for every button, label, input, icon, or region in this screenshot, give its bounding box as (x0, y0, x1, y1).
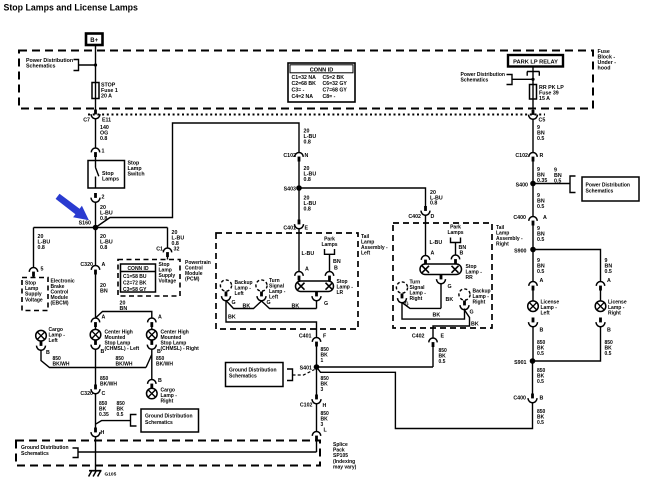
wire C7 to stop lamp switch pin 1 (95, 118, 97, 148)
wire label 850 BK 3 (321, 376, 330, 393)
svg-text:B: B (158, 378, 162, 384)
svg-text:BK: BK (243, 304, 251, 310)
wire S900 to license left (532, 250, 534, 282)
svg-text:Right: Right (496, 242, 509, 248)
svg-text:A: A (305, 267, 309, 273)
connector C320 C (91, 385, 100, 394)
connector C400 A (529, 216, 537, 225)
svg-text:G: G (448, 284, 452, 290)
connector pin H (left) (91, 428, 100, 437)
wire label 20 L-BU 0.8 (EBCM) (38, 234, 51, 251)
svg-text:B: B (540, 396, 544, 402)
svg-text:A: A (102, 315, 106, 321)
wire relay to fuse 39 (532, 72, 534, 85)
lamp CHMSL right E2 (147, 329, 158, 340)
node at relay feed (531, 78, 534, 81)
svg-text:A: A (431, 251, 435, 257)
connector C102 H (312, 395, 321, 404)
svg-text:(EBCM): (EBCM) (51, 301, 69, 307)
svg-text:Left: Left (49, 338, 59, 344)
lamp cargo left E3 (36, 330, 47, 341)
wire label 850 BK 0.5 (S901) (537, 368, 546, 385)
svg-text:C5=2 BK: C5=2 BK (323, 75, 345, 81)
conn id table (288, 63, 355, 102)
svg-text:0.5: 0.5 (439, 359, 446, 365)
connector cargo right pin B (148, 379, 156, 388)
svg-text:E: E (441, 334, 445, 340)
svg-text:Schematics: Schematics (586, 189, 614, 195)
svg-text:A: A (158, 315, 162, 321)
svg-text:BN: BN (100, 288, 108, 294)
wire label 850 BK/WH (down) (100, 376, 117, 387)
CHMSL left label (105, 330, 140, 353)
svg-text:0.5: 0.5 (537, 269, 544, 275)
svg-text:Schematics: Schematics (229, 374, 257, 380)
svg-text:L-BU: L-BU (302, 251, 315, 257)
cargo left label (49, 327, 66, 344)
svg-text:Left: Left (541, 311, 551, 317)
fuse RR PK LP Fuse 39 15A (530, 85, 565, 102)
connector C320 A (91, 266, 99, 275)
wire C102N to S403 (298, 162, 300, 189)
wire stop RR G down (440, 284, 442, 309)
svg-text:C3=58 GY: C3=58 GY (123, 287, 147, 293)
wire label 9 BN 0.5 (license right) (605, 258, 613, 275)
svg-text:may vary): may vary) (333, 464, 357, 470)
connector CHMSL right pin B (147, 340, 156, 349)
svg-text:5: 5 (41, 267, 44, 273)
connector stop lamp RR pin A (421, 255, 429, 264)
wire label 9 BN 0.5 (S400) (537, 193, 545, 210)
wire pin2 to S160 (95, 202, 97, 228)
node at B+ feed (94, 63, 97, 66)
relay output terminal (527, 67, 540, 76)
connector license right pin B (596, 318, 605, 327)
svg-text:A: A (102, 262, 106, 268)
wire H into ground splice box (95, 437, 97, 471)
wire S401 bus to C402E branch (317, 366, 434, 368)
svg-text:G: G (324, 301, 328, 307)
connector EBCM pin 5 (29, 268, 37, 277)
turn signal right label (410, 280, 427, 303)
license right label (608, 300, 627, 317)
stop lamp switch label (128, 161, 145, 178)
svg-text:BN: BN (333, 259, 341, 265)
wire C102H to splice pack (316, 404, 318, 432)
wire label 9 BN 0.5 (license left) (537, 258, 545, 275)
svg-text:LR: LR (337, 290, 344, 296)
svg-text:L-BU: L-BU (430, 240, 443, 246)
svg-text:Schematics: Schematics (461, 78, 489, 84)
connector pin 1 (91, 148, 99, 157)
connector stop lamp LR pin A (295, 271, 303, 280)
tail lamp assembly right dashed box (393, 223, 492, 328)
wire label 20 BN (split) (120, 301, 128, 312)
svg-text:R: R (540, 153, 544, 159)
svg-text:Voltage: Voltage (25, 297, 43, 303)
connector pin 2 (91, 193, 100, 202)
fuse block connector face dotted line (88, 114, 545, 116)
wire label 850 BK/WH (right) (156, 356, 173, 367)
svg-text:0.8: 0.8 (430, 201, 437, 207)
wire C320 to CHMSL split (95, 275, 97, 319)
svg-text:G105: G105 (105, 472, 117, 478)
wire cargo left to ground bus (41, 351, 96, 368)
wire label 20 L-BU 0.8 (above C401 E) (304, 196, 317, 213)
splice pack label (333, 442, 357, 470)
svg-text:3: 3 (321, 387, 324, 393)
connector stop lamp RR pin B (451, 255, 459, 264)
backup lamp left label (235, 280, 253, 297)
splice S401 (314, 364, 320, 370)
svg-text:C2=68 BK: C2=68 BK (292, 81, 317, 87)
svg-text:0.8: 0.8 (38, 245, 45, 251)
svg-text:0.5: 0.5 (537, 136, 544, 142)
wire label 850 BK 0.5 (license right) (605, 340, 614, 357)
lamp license right E12 (595, 301, 606, 312)
power distribution schematics note (left) (26, 58, 73, 70)
switch inner label Stop Lamps (102, 171, 119, 183)
wire label 9 BN 0.5 (C5) (537, 125, 545, 142)
ground chain wires (left box) (226, 301, 317, 309)
wire license left to S901 (532, 327, 534, 362)
wire label 850 BK/WH (cargo left) (53, 356, 70, 367)
bracket ground distribution (bottom) (73, 448, 96, 458)
svg-text:E11: E11 (102, 118, 111, 124)
backup lamp left E6 (dashed) (220, 280, 231, 291)
ground distribution schematics box (mid) (141, 409, 199, 432)
connector license right pin A (596, 281, 604, 290)
connector C402 E (429, 338, 437, 347)
wire S160 bus (34, 227, 168, 229)
svg-text:B: B (460, 251, 464, 257)
connector turn right pin G (398, 294, 407, 303)
ground bus wire in splice box (96, 451, 317, 453)
bracket to ground distribution box (96, 415, 137, 427)
svg-text:Right: Right (608, 311, 621, 317)
lamp license left E11 (528, 301, 539, 312)
bracket to power distribution (left) (74, 60, 96, 71)
svg-text:C4=2 NA: C4=2 NA (292, 94, 314, 100)
svg-text:B: B (157, 349, 161, 355)
wire C400B ground return to S401 bus (317, 367, 533, 429)
svg-text:C401: C401 (283, 226, 296, 232)
svg-text:0.8: 0.8 (304, 206, 311, 212)
svg-text:hood: hood (598, 66, 611, 72)
ground distribution dashed box (16, 441, 320, 466)
wire C401E to stop lamp A (298, 228, 300, 271)
svg-text:Lamps: Lamps (102, 177, 119, 183)
stop lamp RR label (466, 264, 483, 281)
svg-text:S900: S900 (514, 249, 526, 255)
svg-text:Right: Right (473, 300, 486, 306)
svg-text:0.8: 0.8 (100, 136, 107, 142)
wire label 850 BK 0.35 (99, 401, 109, 418)
svg-text:(CHMSL) - Right: (CHMSL) - Right (161, 346, 200, 352)
wire label 20 L-BU 0.8 (switch out) (100, 205, 113, 222)
svg-text:S403: S403 (284, 187, 296, 193)
connector CHMSL left pin A (91, 318, 99, 327)
svg-text:0.5: 0.5 (537, 204, 544, 210)
svg-text:0.5: 0.5 (537, 351, 544, 357)
svg-text:BK/WH: BK/WH (53, 361, 70, 367)
wire label 850 BK 0.5 (C402 E) (439, 348, 448, 365)
svg-text:0.8: 0.8 (100, 245, 107, 251)
ground G105 (89, 471, 102, 477)
wire into splice pack (316, 441, 318, 453)
wire label 9 BN 0.5 (branch) (554, 168, 562, 185)
wire label 20 L-BU 0.8 (PCM) (172, 230, 185, 247)
PCM conn id table (121, 264, 156, 293)
wire C402D to stop lamp A (425, 215, 427, 256)
license left label (541, 300, 560, 317)
svg-text:N: N (305, 153, 309, 159)
wire fuse 39 to C5 (532, 99, 534, 110)
ground bus 2 (right box) (402, 303, 465, 320)
svg-text:G: G (267, 300, 271, 306)
connector cargo left pin B (37, 341, 46, 350)
svg-text:Schematics: Schematics (26, 64, 55, 70)
ground exit wire (right box) (433, 310, 470, 338)
bracket to power distribution (relay) (507, 75, 534, 85)
lamp cargo right E4 (147, 388, 158, 399)
svg-text:B: B (334, 266, 338, 272)
svg-text:BK: BK (446, 297, 454, 303)
wire label 850 BK/WH (bus) (116, 356, 133, 367)
fuse block underhood label (598, 49, 617, 72)
splice S400 (530, 181, 536, 187)
svg-text:32: 32 (174, 247, 180, 253)
wire label 20 L-BU 0.8 (C320) (100, 234, 113, 251)
wire C1 into PCM (167, 257, 169, 260)
wire to CHMSL right lamp (151, 327, 153, 330)
wire to license right lamp (600, 291, 602, 302)
svg-text:Ground Distribution: Ground Distribution (145, 414, 193, 420)
svg-text:0.5: 0.5 (537, 379, 544, 385)
PCM name label (185, 260, 211, 283)
power distribution schematics box (right) (582, 177, 639, 201)
stop lamp switch contacts (96, 161, 99, 189)
svg-text:1: 1 (102, 149, 105, 155)
svg-text:BK/WH: BK/WH (156, 361, 173, 367)
connector C401 E (295, 220, 304, 229)
svg-text:RR: RR (466, 275, 474, 281)
svg-text:0.8: 0.8 (100, 216, 107, 222)
svg-text:H: H (101, 430, 105, 436)
svg-text:C8= -: C8= - (323, 94, 336, 100)
wire C402E to S401 (432, 347, 434, 367)
svg-text:BN: BN (120, 306, 128, 312)
fuse block underhood dashed box (19, 51, 593, 109)
connector stop RR pin G (437, 275, 446, 284)
svg-text:B: B (101, 349, 105, 355)
wire C5 to C102 R (532, 119, 534, 153)
tail lamp assembly left dashed box (216, 233, 358, 329)
svg-text:C1=32 NA: C1=32 NA (292, 75, 317, 81)
svg-text:A: A (607, 278, 611, 284)
svg-text:Right: Right (161, 399, 174, 405)
wire ground bus down to C320 C (95, 368, 97, 385)
svg-text:0.5: 0.5 (537, 237, 544, 243)
svg-text:C102: C102 (515, 153, 528, 159)
svg-text:C102: C102 (283, 153, 296, 159)
park lamps bracket (right) (451, 238, 461, 256)
svg-text:E: E (305, 226, 309, 232)
svg-text:Right: Right (410, 296, 423, 302)
svg-text:0.8: 0.8 (304, 177, 311, 183)
stop lamp switch S1 box (88, 161, 125, 189)
wire label 20 L-BU 0.8 (C402 D) (430, 190, 443, 207)
svg-text:S401: S401 (300, 366, 312, 372)
svg-text:B: B (46, 350, 50, 356)
svg-text:C1=58 BU: C1=58 BU (123, 274, 147, 280)
svg-text:Voltage: Voltage (159, 279, 177, 285)
bracket to power distribution box (570, 176, 576, 193)
wire B+ to STOP fuse (95, 45, 97, 83)
wire into EBCM (33, 276, 35, 278)
wire to license left lamp (532, 291, 534, 302)
svg-text:C320: C320 (80, 262, 93, 268)
svg-text:Stop Lamps and License Lamps: Stop Lamps and License Lamps (4, 3, 139, 13)
backup lamp right E10 (dashed) (459, 289, 470, 300)
svg-text:0.5: 0.5 (605, 269, 612, 275)
svg-text:2: 2 (102, 195, 105, 201)
svg-text:C7: C7 (83, 118, 90, 124)
wire S401 to C102 H (316, 367, 318, 395)
wire label 9 BN 0.5 (C400) (537, 226, 545, 243)
svg-text:A: A (543, 215, 547, 221)
wire C102R to S400 (532, 162, 534, 184)
svg-text:Schematics: Schematics (21, 451, 49, 457)
svg-text:C102: C102 (300, 403, 313, 409)
wire label 850 BK 0.5 (license left) (537, 340, 546, 357)
wire label 20 L-BU 0.8 (above C102 N) (304, 129, 317, 146)
svg-text:C5: C5 (539, 118, 546, 124)
connector C1 pin 32 (163, 248, 171, 257)
svg-text:Left: Left (361, 251, 371, 257)
park lamps feed label (left) (321, 237, 337, 249)
connector C402 D (421, 206, 430, 215)
connector C102 N (295, 152, 303, 161)
wire STOP fuse to C7 (95, 99, 97, 110)
connector C400 B (528, 394, 537, 403)
wire label 850 BK 1 (321, 347, 330, 364)
backup lamp right label (473, 289, 491, 306)
connector stop LR pin G (312, 292, 321, 301)
connector C102 R (529, 152, 537, 161)
wire S160 to C320 A (95, 228, 97, 266)
cargo right label (161, 388, 178, 405)
splice S403 (296, 185, 302, 191)
CHMSL right label (161, 330, 200, 353)
svg-text:C6=32 GY: C6=32 GY (323, 81, 348, 87)
connector turn left pin G (257, 292, 266, 301)
connector backup right pin G (460, 301, 469, 310)
svg-text:C: C (102, 391, 106, 397)
connector stop lamp LR pin B (325, 271, 333, 280)
wire S403 down to C401 E (298, 188, 300, 220)
wire C400A to S900 (532, 226, 534, 250)
svg-text:S400: S400 (516, 183, 528, 189)
ground chain wire (right box) (402, 303, 441, 309)
svg-text:G: G (470, 310, 474, 316)
stop lamp RR dual filament E8 (420, 264, 462, 275)
EBCM U2 dashed box (22, 278, 48, 311)
battery B+ terminal (86, 34, 103, 46)
svg-text:B: B (540, 328, 544, 334)
wire C320C to H (95, 394, 97, 428)
turn signal left label (269, 278, 286, 301)
wire label 20 L-BU 0.8 (above S403) (304, 166, 317, 183)
splice S901 (530, 358, 536, 364)
wire to CHMSL left lamp (95, 327, 97, 330)
wire S160 to PCM C1 (167, 228, 169, 249)
svg-text:C400: C400 (513, 215, 526, 221)
svg-text:A: A (540, 278, 544, 284)
svg-text:Lamps: Lamps (321, 242, 337, 248)
svg-text:H: H (323, 403, 327, 409)
wire stop LR G to bus (316, 300, 318, 309)
svg-text:0.5: 0.5 (117, 412, 124, 418)
svg-text:C7=68 GY: C7=68 GY (323, 88, 348, 94)
wire pin1 to switch box (95, 157, 97, 161)
svg-text:C402: C402 (412, 334, 425, 340)
wire label 850 BK 0.5 (alt) (117, 401, 126, 418)
svg-text:BK: BK (292, 304, 300, 310)
svg-text:BK: BK (471, 322, 479, 328)
svg-text:B: B (607, 328, 611, 334)
fuse STOP Fuse 1 20A (92, 83, 118, 100)
power distribution schematics note (relay) (461, 72, 505, 84)
wire label 850 BK 0.5 (C400 B) (537, 409, 546, 426)
connector CHMSL right pin A (148, 318, 156, 327)
stop lamp LR label (337, 279, 354, 296)
splice S900 (530, 247, 536, 253)
ground exit wire (left box) (226, 301, 317, 338)
park lamps feed label (right) (447, 225, 463, 237)
svg-text:C1: C1 (156, 247, 163, 253)
blue pointer arrow (56, 194, 89, 221)
park lamps bracket (left) (325, 249, 335, 272)
svg-text:C400: C400 (513, 396, 526, 402)
tail lamp assembly left label (361, 234, 388, 257)
svg-text:0.5: 0.5 (537, 420, 544, 426)
svg-text:S160: S160 (79, 221, 91, 227)
PCM U1 dashed box (118, 260, 180, 297)
wire C401F to S401 (316, 347, 318, 368)
wire S160 to EBCM pin 5 (33, 228, 35, 268)
connector backup left pin G (222, 292, 231, 301)
connector license left pin A (529, 281, 537, 290)
wire S900 to license right (533, 250, 601, 282)
wire label 20 BN (100, 283, 108, 294)
svg-text:F: F (323, 334, 327, 340)
EBCM name label (51, 279, 75, 307)
connector license left pin B (529, 318, 538, 327)
ground bus CHMSL (96, 349, 147, 368)
wire license right to S901 (533, 327, 601, 362)
wire S400 to C400 A (532, 184, 534, 217)
wire S901 to C400 B (532, 361, 534, 394)
splice S160 (93, 225, 99, 231)
svg-text:Schematics: Schematics (145, 420, 173, 426)
stop lamp LR dual filament E5 (296, 281, 334, 292)
ground distribution schematics box (S401) (226, 363, 284, 387)
svg-text:0.35: 0.35 (99, 412, 109, 418)
svg-text:Switch: Switch (128, 172, 145, 178)
turn signal lamp left E7 (dashed) (256, 280, 267, 291)
svg-text:L: L (324, 428, 328, 434)
